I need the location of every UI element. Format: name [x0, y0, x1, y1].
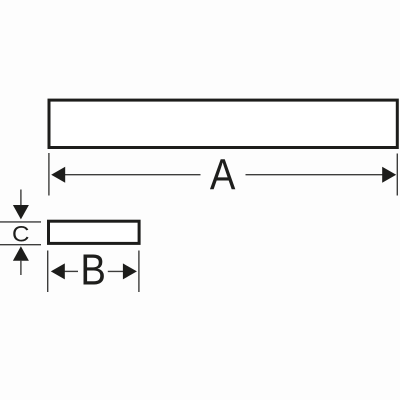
arrowhead A left — [51, 167, 65, 183]
dimension line A right segment — [246, 174, 385, 176]
svg-text:C: C — [12, 221, 29, 246]
extension line left (dimension B) — [47, 251, 49, 293]
large bar (top rectangle) — [49, 100, 397, 147]
arrow C up shaft — [20, 260, 22, 275]
arrowhead A right — [382, 167, 396, 183]
extension line left (dimension A) — [48, 153, 50, 196]
dimension line A left segment — [63, 174, 201, 176]
extension line bottom (dimension C) — [0, 244, 41, 246]
dimension line B right segment — [108, 270, 124, 272]
svg-text:A: A — [210, 150, 236, 199]
extension line right (dimension B) — [138, 251, 140, 293]
arrow C down shaft — [20, 190, 22, 207]
arrowhead B right — [123, 263, 137, 279]
extension line top (dimension C) — [0, 221, 41, 223]
arrowhead B left — [51, 263, 65, 279]
dimension line B left segment — [64, 270, 78, 272]
arrowhead C up — [13, 246, 29, 260]
extension line right (dimension A) — [396, 154, 398, 196]
arrowhead C down — [13, 205, 29, 219]
small bar (bottom rectangle) — [49, 221, 140, 243]
svg-text:B: B — [80, 245, 106, 294]
